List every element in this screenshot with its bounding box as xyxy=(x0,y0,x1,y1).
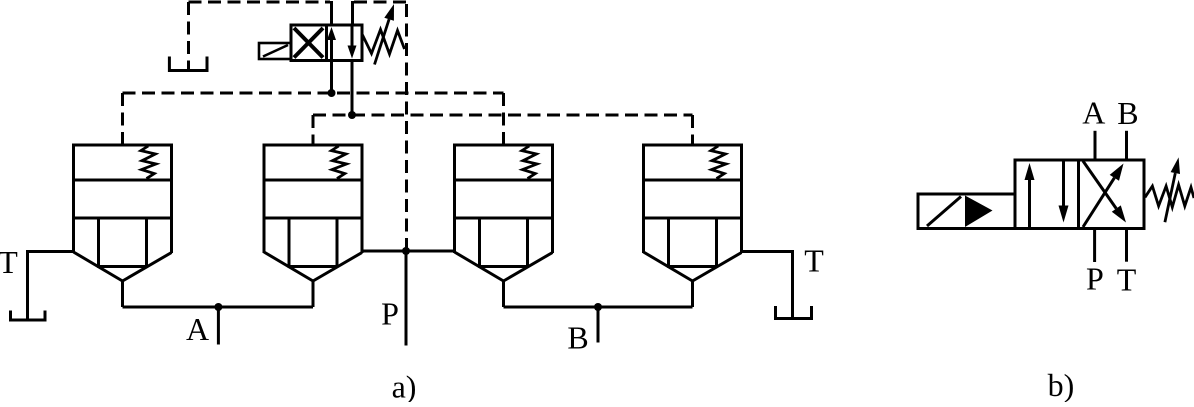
wire: A channel xyxy=(123,306,314,309)
tank symbol left xyxy=(11,311,46,321)
svg-text:b): b) xyxy=(1048,367,1075,402)
svg-text:T: T xyxy=(804,243,824,279)
svg-text:B: B xyxy=(1117,95,1138,131)
port B stub of V2 xyxy=(1125,131,1128,160)
wire: U1 bottom-right port down to node N2 xyxy=(351,61,354,116)
node N2 junction dot xyxy=(348,111,356,119)
proportional solenoid of U1 xyxy=(259,43,291,59)
drain line (dashed) to tank xyxy=(189,2,331,70)
V2 crossed position arrow P-B xyxy=(1083,164,1124,228)
V2 parallel position up arrow xyxy=(1025,163,1035,227)
wire: T port left xyxy=(28,252,74,321)
pilot valve body U1 xyxy=(291,25,362,61)
adjustable spring of U1 xyxy=(362,30,405,55)
cartridge valve 4 xyxy=(644,145,742,307)
V2 crossed position arrow A-T xyxy=(1083,161,1126,223)
pilot line 2 (dashed, valves 2 and 4) xyxy=(313,115,693,145)
adjustment arrow of U1 xyxy=(375,4,395,65)
node P junction dot xyxy=(402,247,410,255)
port T stub of V2 xyxy=(1125,229,1128,262)
wire: P channel xyxy=(362,250,455,253)
supply line (dashed) from P riser xyxy=(354,1,407,4)
port A stub of V2 xyxy=(1094,131,1097,160)
adjustment arrow of V2 xyxy=(1165,157,1180,222)
cartridge valve 1 xyxy=(74,145,172,307)
svg-text:T: T xyxy=(0,244,18,280)
svg-text:B: B xyxy=(567,320,588,356)
svg-text:P: P xyxy=(381,296,399,332)
valve body V2 (4/2 valve) xyxy=(1015,160,1144,229)
wire: B port stub xyxy=(597,307,600,343)
wire: P port stub xyxy=(405,251,408,346)
svg-text:A: A xyxy=(1082,95,1105,131)
port P stub of V2 xyxy=(1093,229,1096,263)
svg-text:T: T xyxy=(1117,262,1137,298)
svg-text:a): a) xyxy=(392,369,417,403)
pilot valve up arrow xyxy=(327,27,336,61)
wire: B channel xyxy=(504,306,693,309)
pilot valve closed position X xyxy=(294,28,323,58)
svg-text:A: A xyxy=(186,311,209,347)
cartridge valve 2 xyxy=(264,145,362,307)
node N1 junction dot xyxy=(328,89,336,97)
adjustable spring of V2 xyxy=(1145,185,1194,207)
wire: U1 bottom-left port down to node N1 xyxy=(330,61,333,94)
node A junction dot xyxy=(214,303,222,311)
wire: U1 top-right port to supply line xyxy=(351,1,354,25)
cartridge valve 3 xyxy=(455,145,553,307)
drain tank symbol xyxy=(169,57,207,71)
svg-text:P: P xyxy=(1086,261,1104,297)
tank symbol right xyxy=(776,306,812,319)
node B junction dot xyxy=(594,303,602,311)
pilot valve down arrow xyxy=(348,25,357,59)
pilot line 1 (dashed, valves 1 and 3) xyxy=(123,93,504,145)
proportional solenoid of V2 xyxy=(918,194,1015,229)
wire: U1 top-left port to drain line xyxy=(330,1,333,25)
pilot supply riser (dashed) from node P xyxy=(405,2,408,251)
wire: A port stub xyxy=(217,307,220,345)
wire: T port right xyxy=(742,252,793,319)
V2 parallel position down arrow xyxy=(1059,162,1069,223)
